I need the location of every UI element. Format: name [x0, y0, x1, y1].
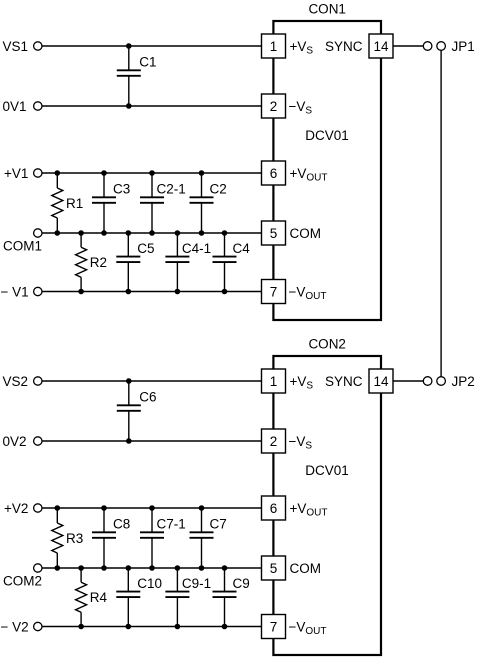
svg-text:C9: C9	[233, 576, 250, 591]
terminal +V2	[4, 501, 42, 516]
capacitor C4-1	[165, 233, 211, 292]
terminal 0V2	[3, 434, 43, 449]
junction VS1 / C1	[126, 43, 132, 49]
svg-text:DCV01: DCV01	[305, 463, 349, 478]
capacitor C4	[213, 233, 251, 292]
capacitor C2-1	[140, 173, 186, 233]
pin 2	[262, 94, 286, 118]
svg-text:+VOUT: +VOUT	[290, 166, 328, 184]
pin 6	[262, 161, 286, 185]
svg-text:+VS: +VS	[290, 374, 314, 392]
svg-text:7: 7	[270, 619, 278, 634]
terminal COM1	[3, 229, 42, 254]
capacitor C7	[190, 508, 227, 568]
terminal +V1	[4, 166, 42, 181]
svg-text:1: 1	[270, 39, 278, 54]
terminal 0V1	[3, 99, 43, 114]
svg-text:COM: COM	[290, 226, 322, 241]
pin 14	[369, 369, 393, 393]
svg-text:C7: C7	[210, 517, 227, 532]
svg-text:C10: C10	[137, 576, 162, 591]
svg-text:COM1: COM1	[3, 239, 42, 254]
junctions on +V1 rail	[55, 170, 205, 176]
svg-text:− V2: − V2	[1, 619, 29, 634]
svg-text:−VOUT: −VOUT	[289, 619, 327, 637]
svg-text:14: 14	[373, 39, 389, 54]
svg-text:SYNC: SYNC	[325, 39, 363, 54]
wire VS2 to pin 1	[42, 380, 262, 382]
svg-text:VS2: VS2	[3, 374, 29, 389]
resistor R1	[52, 173, 83, 233]
svg-text:C2-1: C2-1	[157, 182, 186, 197]
svg-text:2: 2	[270, 434, 278, 449]
capacitor C5	[116, 233, 154, 292]
svg-text:R2: R2	[90, 255, 107, 270]
svg-text:R3: R3	[66, 531, 83, 546]
svg-text:−VOUT: −VOUT	[289, 284, 327, 302]
terminal VS2	[3, 374, 43, 389]
capacitor C9-1	[165, 568, 211, 627]
svg-text:C4: C4	[233, 241, 251, 256]
capacitor C9	[213, 568, 250, 627]
terminal &#8722; V2	[1, 619, 43, 634]
svg-text:VS1: VS1	[3, 39, 29, 54]
wire COM2 to pin 5	[42, 567, 262, 569]
svg-text:2: 2	[270, 99, 278, 114]
pin 7	[262, 615, 286, 639]
wire 0V2 to pin 2	[42, 440, 262, 442]
junctions on COM2 rail	[55, 565, 228, 571]
wire VS1 to pin 1	[42, 45, 262, 47]
svg-text:+VS: +VS	[290, 39, 314, 57]
junctions on +V2 rail	[55, 505, 205, 511]
junctions on &#8722; V2 rail	[78, 624, 227, 630]
resistor R4	[76, 568, 108, 627]
capacitor C7-1	[140, 508, 186, 568]
svg-text:SYNC: SYNC	[325, 374, 363, 389]
svg-text:+V2: +V2	[4, 501, 28, 516]
svg-text:JP2: JP2	[452, 374, 475, 389]
capacitor C1	[117, 46, 157, 106]
svg-text:−VS: −VS	[289, 99, 313, 117]
resistor R2	[76, 233, 107, 292]
svg-text:JP1: JP1	[452, 39, 475, 54]
pin 5	[262, 221, 286, 245]
pin 14	[369, 34, 393, 58]
svg-text:CON1: CON1	[308, 2, 346, 17]
svg-text:0V2: 0V2	[3, 434, 27, 449]
wire pin 14 to JP2	[393, 380, 423, 382]
capacitor C8	[92, 508, 130, 568]
wire &#8722; V2 to pin 7	[42, 626, 262, 628]
svg-text:+VOUT: +VOUT	[290, 501, 328, 519]
capacitor C6	[117, 381, 157, 441]
terminal COM2	[3, 564, 42, 589]
terminal VS1	[3, 39, 43, 54]
svg-text:7: 7	[270, 284, 278, 299]
svg-text:C1: C1	[139, 55, 156, 70]
svg-text:COM2: COM2	[3, 574, 42, 589]
svg-text:C5: C5	[137, 241, 154, 256]
resistor R3	[52, 508, 83, 568]
pin 1	[262, 34, 286, 58]
capacitor C10	[116, 568, 162, 627]
wire +V2 to pin 6	[42, 507, 262, 509]
DCV01 converter block CON2 outline	[273, 356, 381, 655]
svg-text:C8: C8	[113, 517, 130, 532]
pin 7	[262, 280, 286, 304]
svg-text:5: 5	[270, 561, 278, 576]
capacitor C2	[190, 173, 227, 233]
pin 1	[262, 369, 286, 393]
svg-text:5: 5	[270, 226, 278, 241]
wire COM1 to pin 5	[42, 232, 262, 234]
junction 0V2 / C6	[126, 438, 132, 444]
svg-text:6: 6	[270, 166, 278, 181]
svg-text:C3: C3	[113, 182, 130, 197]
jumper JP1 pad 1	[423, 42, 432, 51]
junction 0V1 / C1	[126, 103, 132, 109]
svg-text:C6: C6	[139, 390, 156, 405]
svg-text:DCV01: DCV01	[305, 128, 349, 143]
svg-text:6: 6	[270, 501, 278, 516]
svg-text:C2: C2	[210, 182, 227, 197]
svg-text:+V1: +V1	[4, 166, 28, 181]
svg-text:COM: COM	[290, 561, 322, 576]
junction VS2 / C6	[126, 378, 132, 384]
jumper JP1 pad 2	[437, 42, 446, 51]
svg-text:C7-1: C7-1	[157, 517, 186, 532]
jumper JP2 pad 2	[437, 377, 446, 386]
jumper JP2 pad 1	[423, 377, 432, 386]
svg-text:R1: R1	[66, 196, 83, 211]
terminal &#8722; V1	[1, 284, 43, 299]
capacitor C3	[92, 173, 130, 233]
svg-text:−VS: −VS	[289, 434, 313, 452]
pin 6	[262, 496, 286, 520]
svg-text:14: 14	[373, 374, 389, 389]
svg-text:− V1: − V1	[1, 284, 29, 299]
wire 0V1 to pin 2	[42, 105, 262, 107]
junctions on &#8722; V1 rail	[78, 289, 227, 295]
wire JP1 to JP2 (SYNC interconnect)	[440, 50, 442, 376]
svg-text:1: 1	[270, 374, 278, 389]
svg-text:CON2: CON2	[308, 337, 346, 352]
pin 2	[262, 429, 286, 453]
svg-text:R4: R4	[90, 590, 108, 605]
junctions on COM1 rail	[55, 230, 228, 236]
svg-text:C4-1: C4-1	[182, 241, 211, 256]
wire +V1 to pin 6	[42, 172, 262, 174]
wire &#8722; V1 to pin 7	[42, 291, 262, 293]
pin 5	[262, 556, 286, 580]
svg-text:C9-1: C9-1	[182, 576, 211, 591]
DCV01 converter block CON1 outline	[273, 21, 381, 320]
wire pin 14 to JP1	[393, 45, 423, 47]
svg-text:0V1: 0V1	[3, 99, 27, 114]
